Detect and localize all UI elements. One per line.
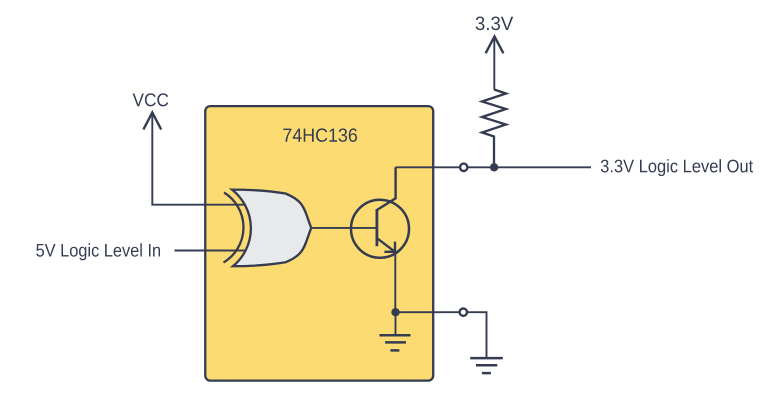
- transistor Q1 collector: [377, 167, 396, 210]
- ground GND1 (inside IC): [395, 312, 397, 335]
- power arrow 3.3V: [486, 37, 504, 54]
- ground GND2 (external): [470, 357, 503, 360]
- label 3.3V: [476, 17, 514, 31]
- transistor Q1 circle: [351, 200, 409, 258]
- wire to external ground: [467, 312, 486, 357]
- transistor Q1 emitter with arrow: [377, 238, 394, 251]
- label 5V Logic Level In: [36, 243, 160, 260]
- wire 3.3V to resistor: [493, 38, 495, 90]
- pin circle output: [460, 164, 467, 171]
- wire gate output to transistor base: [311, 227, 377, 229]
- label 74HC136: [283, 128, 357, 142]
- wire VCC to gate input A: [152, 114, 252, 205]
- label 3.3V Logic Level Out: [601, 159, 753, 176]
- XOR gate U1 input arc: [224, 193, 244, 263]
- resistor R1: [482, 90, 506, 168]
- wire input B: [175, 250, 253, 252]
- wire emitter down: [394, 253, 396, 312]
- node junction resistor/output: [490, 163, 498, 171]
- XOR gate U1 body: [232, 190, 311, 267]
- label VCC: [133, 93, 169, 106]
- pin circle ground: [460, 309, 467, 316]
- power arrow VCC: [143, 113, 161, 130]
- transistor Q1 base bar: [375, 209, 378, 246]
- node junction emitter/ground: [391, 308, 399, 316]
- wire ground bus: [396, 311, 460, 313]
- IC body 74HC136: [205, 106, 433, 381]
- wire collector out: [396, 166, 591, 168]
